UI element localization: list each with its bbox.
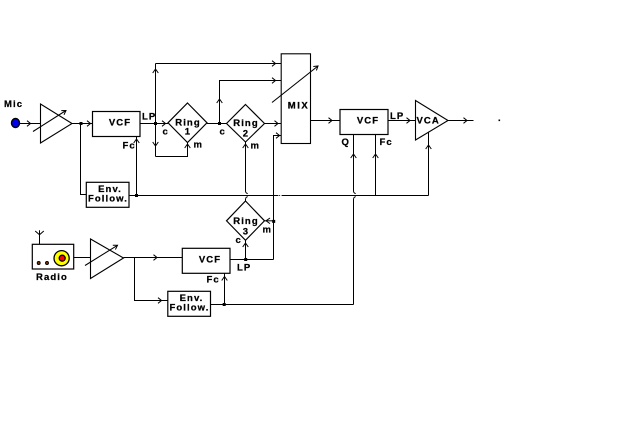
svg-text:m: m <box>251 141 261 152</box>
Mic input connector (blue) <box>12 119 20 128</box>
Radio knob dot 2 <box>46 262 49 265</box>
svg-text:Fc: Fc <box>207 275 220 286</box>
wire Env2 node riser to U3 Fc <box>224 274 226 305</box>
VCF U1 box <box>93 112 141 137</box>
wire VCA output <box>448 120 474 122</box>
VCF U3 box <box>182 248 230 273</box>
label Fc (U3 cutoff) <box>207 275 220 286</box>
wire into Ring 3 m with arrowhead (left pointing) <box>265 218 274 224</box>
svg-text:VCF: VCF <box>109 118 131 129</box>
label VCA <box>417 116 440 127</box>
label Ring 1 <box>175 118 201 138</box>
wire top feed to MIX input 1 <box>156 63 282 65</box>
arrowhead up on Fc riser <box>373 154 379 158</box>
envelope follower Env1 box <box>86 182 129 207</box>
wire A2 node down to Env2 input <box>135 258 168 301</box>
label Ring 3 <box>233 216 259 238</box>
wire Ring 2 output to MIX input 3 <box>265 123 282 125</box>
wire A1 node down to Env1 input <box>81 124 87 195</box>
svg-text:MIX: MIX <box>288 101 309 112</box>
Radio speaker inner (red) <box>59 255 65 261</box>
arrowhead into Ring 1 m <box>185 144 191 148</box>
arrowhead into VCF U2 <box>329 118 333 124</box>
ring modulator Ring 3 diamond <box>227 201 265 240</box>
ring modulator Ring 2 diamond <box>227 105 265 143</box>
wire A1 output to VCF U1 <box>72 123 92 125</box>
label Q (U2 resonance) <box>342 137 351 148</box>
gain arrow through A1 <box>33 111 66 132</box>
junction dot Ring1-Ring2 node <box>218 122 221 125</box>
label c (Ring 1 carrier) <box>163 127 169 138</box>
svg-text:Ring: Ring <box>233 118 259 129</box>
svg-text:Fc: Fc <box>380 137 393 148</box>
svg-text:m: m <box>263 224 273 235</box>
wire MIX output to VCF U2 <box>311 120 341 122</box>
wire control bus y195 (right part to VCA riser) <box>282 195 429 197</box>
label c (Ring 2 carrier) <box>220 127 226 138</box>
junction dot Env2 output node <box>223 303 226 306</box>
junction dot A1 output <box>80 122 83 125</box>
junction dot U3 LP node <box>244 258 247 261</box>
arrowhead MIX input 3 <box>275 121 279 127</box>
wire node riser x219 to MIX input 2 <box>220 81 282 124</box>
svg-text:c: c <box>236 235 242 246</box>
wire Fc riser x376 (to U2 Fc) <box>375 135 377 196</box>
arrowhead into Env2 <box>158 298 162 304</box>
svg-text:Mic: Mic <box>4 99 23 110</box>
arrowhead MIX input 4 <box>276 133 280 139</box>
arrowhead down on riser x155 <box>153 142 159 146</box>
svg-text:1: 1 <box>185 127 191 138</box>
wire LP node vertical riser x155 <box>155 64 157 157</box>
svg-text:Ring: Ring <box>233 216 259 227</box>
amplifier A1 (mic preamp triangle) <box>41 104 73 143</box>
wire Ring 3 c riser <box>245 240 247 260</box>
svg-text:m: m <box>194 140 204 151</box>
arrowhead into Ring 3 c <box>243 243 249 247</box>
label Fc (U1 cutoff) <box>123 141 136 152</box>
wire VCA gain riser x428 <box>428 132 430 196</box>
wire Q riser x353 (Env2 out up to U2 Q, hop at y195) <box>354 135 356 305</box>
Radio speaker outer (yellow) <box>54 251 69 266</box>
Radio knob dot 1 <box>37 262 40 265</box>
label m (Ring 3 modulator) <box>263 224 273 235</box>
arrowhead up on VCA riser <box>426 145 432 149</box>
svg-text:VCF: VCF <box>199 255 221 266</box>
arrowhead up on Q riser <box>351 154 357 158</box>
gain arrow through A2 <box>85 245 118 265</box>
svg-text:Follow.: Follow. <box>169 303 209 314</box>
arrowhead into VCF U3 <box>154 255 158 261</box>
arrowhead up on riser x219 <box>217 99 223 103</box>
label Ring 2 <box>233 118 259 140</box>
junction dot LP node <box>154 122 157 125</box>
arrowhead MIX input 2 <box>272 78 276 84</box>
label Radio <box>36 272 68 283</box>
label VCF U2 <box>357 116 379 127</box>
label Fc (U2 cutoff) <box>380 137 393 148</box>
svg-text:LP: LP <box>142 112 156 123</box>
wire U1 LP output to node <box>140 123 168 125</box>
VCF U2 box <box>340 110 388 135</box>
label LP (U1 output) <box>142 112 156 123</box>
label MIX <box>288 101 309 112</box>
label m (Ring 1 modulator) <box>194 140 204 151</box>
label Env. Follow. (Env1) <box>88 184 128 204</box>
junction dot Env1 output <box>135 194 138 197</box>
wire riser x273 (U3 LP up to MIX, crosses bus) <box>273 196 275 260</box>
envelope follower Env2 box <box>168 291 211 316</box>
node Mic label <box>4 99 23 110</box>
arrowhead on Mic wire <box>27 121 31 127</box>
wire Ring 3 output up to Ring 2 m (with hop at y195) <box>246 142 248 201</box>
arrowhead into VCA <box>407 118 411 124</box>
svg-text:Follow.: Follow. <box>88 193 128 204</box>
arrowhead MIX input 1 <box>272 61 276 67</box>
label c (Ring 3 carrier) <box>236 235 242 246</box>
wire U3 LP output to riser x273 <box>230 259 274 261</box>
svg-text:Q: Q <box>342 137 351 148</box>
svg-text:3: 3 <box>243 227 249 238</box>
amplifier VCA triangle <box>416 101 449 141</box>
label Env. Follow. (Env2) <box>169 293 209 313</box>
svg-text:c: c <box>163 127 169 138</box>
label LP (U3 output) <box>237 263 251 274</box>
arrowhead up on riser x155 <box>153 69 159 73</box>
label VCF U1 <box>109 118 131 129</box>
arrowhead into Ring 1 <box>162 121 166 127</box>
mixer MIX box <box>281 54 310 144</box>
antenna of Radio <box>35 230 44 244</box>
wire control bus y195 (Env1 out, left part) <box>129 195 278 197</box>
svg-text:VCA: VCA <box>417 116 440 127</box>
wire LP node down to Ring 1 m input <box>156 143 188 157</box>
svg-text:Radio: Radio <box>36 272 68 283</box>
arrowhead into VCF U1 <box>87 121 91 127</box>
wire Radio to amp A2 <box>74 257 91 259</box>
svg-text:VCF: VCF <box>357 116 379 127</box>
wire A2 output to VCF U3 <box>124 257 183 259</box>
svg-text:Fc: Fc <box>123 141 136 152</box>
arrowhead into Ring 2 m <box>243 144 249 148</box>
dash in bus gap <box>278 195 281 196</box>
svg-text:2: 2 <box>243 129 249 140</box>
gain arrow through MIX <box>272 66 318 103</box>
label LP (U2 output) <box>390 111 404 122</box>
arrowhead up into U3 Fc <box>222 277 228 281</box>
arrowhead VCA output <box>464 118 468 124</box>
svg-text:LP: LP <box>237 263 251 274</box>
wire from Ring3/VCF riser to MIX input 4 <box>274 136 282 196</box>
wire U2 LP to VCA <box>388 120 415 122</box>
wire Mic to amp A1 <box>20 123 41 125</box>
label VCF U3 <box>199 255 221 266</box>
wire Env1 out riser to U1 Fc <box>136 137 138 196</box>
amplifier A2 triangle <box>91 239 124 279</box>
ring modulator Ring 1 diamond <box>168 103 207 143</box>
arrowhead up into U1 Fc <box>134 139 140 143</box>
wire Env2 output to Q riser <box>211 304 354 306</box>
stray dot right of output <box>499 120 501 122</box>
wire Ring 1 output to Ring 2 <box>207 123 227 125</box>
svg-text:c: c <box>220 127 226 138</box>
label m (Ring 2 modulator) <box>251 141 261 152</box>
Radio box <box>32 244 73 269</box>
junction dot Ring 3 m node <box>272 220 275 223</box>
